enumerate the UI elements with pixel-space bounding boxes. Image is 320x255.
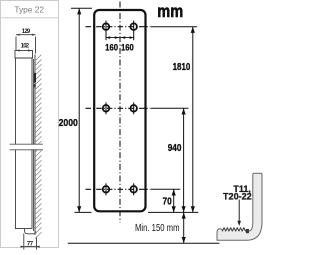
svg-text:Min. 150 mm: Min. 150 mm [135, 223, 180, 234]
svg-text:160: 160 [105, 42, 118, 53]
svg-text:1810: 1810 [173, 62, 191, 73]
svg-text:70: 70 [163, 196, 173, 207]
svg-text:T20-22: T20-22 [223, 191, 252, 201]
svg-text:160: 160 [121, 42, 134, 53]
svg-text:mm: mm [157, 2, 183, 22]
svg-text:Type 22: Type 22 [14, 4, 44, 14]
svg-text:102: 102 [21, 43, 30, 49]
svg-text:129: 129 [22, 29, 31, 35]
svg-text:940: 940 [168, 143, 182, 154]
svg-text:77: 77 [27, 241, 34, 247]
svg-text:2000: 2000 [59, 118, 79, 129]
